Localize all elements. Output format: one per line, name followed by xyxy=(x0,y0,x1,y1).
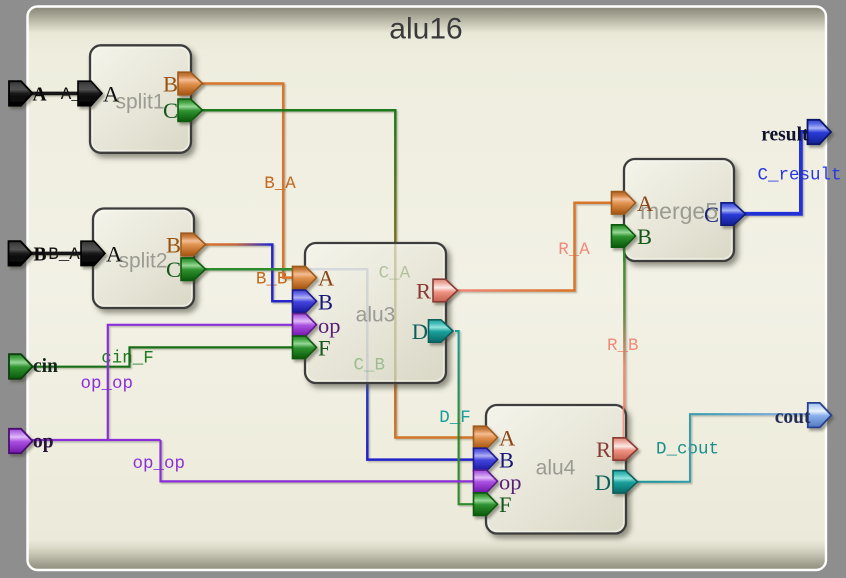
block split2 xyxy=(93,209,194,309)
svg-text:D: D xyxy=(412,319,428,344)
svg-text:F: F xyxy=(499,492,512,517)
svg-text:C_A: C_A xyxy=(379,264,411,284)
port alu3.F xyxy=(293,335,331,360)
port split2.C (output) xyxy=(166,257,206,282)
svg-text:op_op: op_op xyxy=(133,454,186,474)
wire B_A orange (split1.B to alu3.A) xyxy=(202,84,294,278)
svg-text:op: op xyxy=(33,432,54,453)
wire op_op (op to alu3.op and alu4.op) xyxy=(30,325,475,482)
svg-text:A: A xyxy=(318,266,335,291)
block alu3 xyxy=(305,243,446,383)
svg-text:B: B xyxy=(166,233,181,258)
wire C_result (merge5.C to result) xyxy=(744,132,808,214)
svg-text:cout: cout xyxy=(775,407,811,428)
connector output result xyxy=(761,120,831,146)
svg-text:B: B xyxy=(163,72,178,97)
connector input B xyxy=(9,241,47,265)
wire R_B (alu4.R to merge5.B) xyxy=(624,236,630,449)
wire D_cout (alu4.D to cout) xyxy=(636,414,808,482)
port alu4.R xyxy=(596,437,638,462)
port merge5.B xyxy=(612,224,653,249)
svg-text:C_B: C_B xyxy=(353,356,385,376)
svg-text:C: C xyxy=(166,257,181,282)
port alu3.D xyxy=(412,319,453,344)
port alu3.A xyxy=(293,266,336,291)
faint hidden wire C_A crossing behind alu3 xyxy=(394,244,397,382)
svg-text:A: A xyxy=(103,81,120,106)
port alu3.R xyxy=(416,279,458,304)
wire R_A (alu3.R to merge5.A) xyxy=(457,203,613,291)
port merge5.C xyxy=(704,202,746,227)
wire B_B (split2.B to alu3.B) xyxy=(205,245,294,302)
svg-text:split2: split2 xyxy=(118,250,167,273)
svg-text:split1: split1 xyxy=(115,91,164,114)
port alu4.F xyxy=(474,492,512,517)
svg-text:D_F: D_F xyxy=(439,408,471,428)
port split1.A (input, black arrow) xyxy=(78,81,120,106)
port alu4.D xyxy=(595,470,638,495)
svg-text:A: A xyxy=(106,241,123,266)
port split2.A (input, black arrow) xyxy=(81,241,123,266)
connector input op xyxy=(9,429,54,453)
svg-text:C: C xyxy=(163,98,178,123)
port merge5.A xyxy=(612,191,655,216)
svg-text:A: A xyxy=(637,191,654,216)
svg-text:D_cout: D_cout xyxy=(656,440,719,460)
faint hidden wire C_B crossing behind alu3 xyxy=(306,269,367,382)
svg-text:B: B xyxy=(637,224,652,249)
wire R_B sliver along merge5 edge xyxy=(623,247,625,262)
port alu4.B xyxy=(474,448,515,473)
svg-text:A: A xyxy=(33,84,47,105)
svg-text:B: B xyxy=(318,289,333,314)
svg-text:result: result xyxy=(761,124,809,145)
svg-text:op: op xyxy=(318,313,341,338)
block split1 xyxy=(90,45,191,153)
wire A_A (A to split1.A) xyxy=(31,92,80,96)
wire D_F (alu3.D to alu4.F) xyxy=(455,331,475,504)
connector input A xyxy=(9,81,47,106)
port alu3.op xyxy=(293,313,341,338)
port alu3.B xyxy=(293,289,334,314)
block alu4 xyxy=(486,405,626,534)
port split2.B (output) xyxy=(166,233,206,258)
svg-text:C: C xyxy=(704,202,719,227)
port split1.C (output) xyxy=(163,98,203,123)
wire R_B sliver along alu4 edge xyxy=(622,406,624,437)
block merge5 xyxy=(624,159,734,261)
svg-text:B_A: B_A xyxy=(264,174,296,194)
wire B_A black (B to split2.A) xyxy=(31,252,82,256)
port alu4.op xyxy=(474,469,522,494)
svg-text:D: D xyxy=(595,470,611,495)
svg-text:F: F xyxy=(318,335,331,360)
port alu4.A xyxy=(474,426,517,451)
svg-text:op: op xyxy=(499,469,522,494)
port split1.B (output) xyxy=(163,72,203,97)
wire C_B (split2.C to alu4.B) xyxy=(205,269,475,459)
connector input cin xyxy=(9,354,58,379)
svg-text:alu16: alu16 xyxy=(389,13,462,46)
wire cin_F (cin to alu3.F) xyxy=(30,347,294,366)
connector output cout xyxy=(775,403,832,428)
svg-text:B: B xyxy=(34,244,47,265)
svg-text:alu4: alu4 xyxy=(536,457,576,480)
svg-text:cin: cin xyxy=(33,356,58,377)
svg-text:R: R xyxy=(596,437,611,462)
svg-text:R_B: R_B xyxy=(607,336,639,356)
svg-text:cin_F: cin_F xyxy=(101,349,154,369)
svg-text:alu3: alu3 xyxy=(356,304,396,327)
svg-text:R: R xyxy=(416,279,431,304)
wire C_A (split1.C to alu4.A) xyxy=(202,110,475,437)
